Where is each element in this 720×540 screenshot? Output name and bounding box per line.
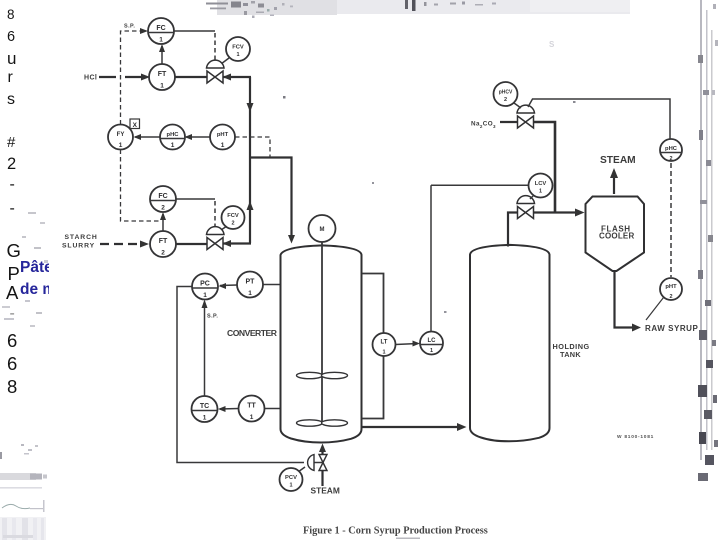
instrument FCV2 bbox=[222, 206, 245, 229]
svg-text:LT: LT bbox=[381, 340, 388, 346]
instrument PC1 bbox=[192, 274, 218, 300]
svg-text:HCl: HCl bbox=[84, 75, 97, 82]
wire pHT2 to pHC2 (dashed) bbox=[670, 163, 672, 277]
wire LC1 output to LCV1 bbox=[430, 185, 432, 331]
valve LCV (body + dome) bbox=[517, 196, 535, 219]
svg-text:pHCV: pHCV bbox=[499, 90, 513, 96]
wire TC1 to PC1 setpoint bbox=[202, 300, 208, 397]
svg-text:X: X bbox=[133, 122, 138, 129]
instrument FC2 bbox=[150, 186, 176, 212]
agitator propeller lower bbox=[297, 420, 348, 426]
process feed to converter bbox=[250, 158, 295, 244]
instrument FC1 bbox=[148, 18, 174, 44]
svg-text:LCV: LCV bbox=[535, 181, 547, 187]
process holding tank to flash cooler bbox=[508, 209, 585, 247]
svg-text:FCV: FCV bbox=[232, 45, 244, 51]
wire PC1 output to steam valve bbox=[177, 287, 304, 463]
agitator propeller upper bbox=[297, 372, 348, 378]
instrument LCV1 bbox=[529, 174, 553, 198]
wire LCV1 circle link bbox=[530, 196, 533, 199]
wire FC1 output to valve FCV1 bbox=[175, 30, 216, 32]
steam inlet arrow into converter bottom bbox=[319, 444, 326, 456]
svg-text:LC: LC bbox=[428, 338, 437, 344]
label STARCH SLURRY bbox=[62, 234, 98, 250]
svg-text:FT: FT bbox=[158, 71, 167, 78]
instrument FT1 bbox=[149, 64, 175, 90]
instrument pHT1 bbox=[210, 125, 235, 150]
instrument FCV1 bbox=[226, 37, 250, 61]
svg-text:1: 1 bbox=[119, 142, 123, 149]
smudge under caption bbox=[396, 538, 420, 540]
bottom left scan marks bbox=[0, 444, 47, 540]
svg-text:S.P.: S.P. bbox=[124, 24, 135, 30]
wire pHC1 to FY bbox=[134, 134, 160, 140]
process starch slurry feed bbox=[100, 240, 251, 248]
wire FC2 output to valve FCV2 bbox=[177, 198, 216, 200]
process steam feed line bbox=[321, 470, 323, 486]
wire PT1 to PC1 bbox=[219, 283, 238, 289]
svg-text:FT: FT bbox=[159, 238, 168, 245]
svg-text:1: 1 bbox=[171, 142, 175, 149]
svg-text:1: 1 bbox=[248, 290, 252, 297]
svg-text:M: M bbox=[320, 227, 325, 233]
process raw syrup outlet bbox=[615, 271, 642, 332]
instrument pHCV2 bbox=[494, 82, 518, 106]
wire FY output down to FC2 loop (dash-dot) bbox=[121, 150, 162, 222]
process steam out of flash cooler bbox=[610, 168, 618, 194]
process starch rise line x250 up bbox=[247, 158, 254, 244]
instrument TT1 bbox=[239, 396, 265, 422]
svg-text:1: 1 bbox=[382, 350, 385, 356]
svg-text:1: 1 bbox=[250, 414, 254, 421]
svg-text:2: 2 bbox=[161, 250, 165, 257]
instrument pHC2 bbox=[660, 139, 682, 162]
agitator shaft bbox=[321, 242, 323, 424]
label FLASH COOLER bbox=[599, 224, 634, 240]
instrument PT1 bbox=[237, 272, 263, 298]
svg-text:TANK: TANK bbox=[560, 350, 581, 359]
svg-text:PT: PT bbox=[246, 279, 256, 286]
svg-text:STARCH: STARCH bbox=[65, 234, 98, 241]
svg-text:2: 2 bbox=[669, 294, 672, 300]
process Na2CO3 feed bbox=[500, 122, 555, 213]
wire pHC2 to pHCV2 valve bbox=[528, 99, 670, 139]
svg-text:S: S bbox=[549, 40, 555, 49]
svg-text:Figure 1 - Corn Syrup Producti: Figure 1 - Corn Syrup Production Process bbox=[303, 526, 488, 537]
svg-text:2: 2 bbox=[504, 97, 507, 103]
svg-text:1: 1 bbox=[236, 52, 239, 58]
svg-text:PC: PC bbox=[200, 281, 210, 288]
holding tank vessel bbox=[470, 245, 550, 441]
scattered scan specks bbox=[283, 4, 718, 313]
svg-text:1: 1 bbox=[203, 415, 207, 422]
converter vessel bbox=[281, 245, 362, 442]
wire FT2 to FC2 measurement bbox=[160, 212, 166, 231]
instrument pHC1 bbox=[160, 125, 185, 150]
svg-text:FC: FC bbox=[156, 25, 165, 32]
valve FCV2 bbox=[207, 227, 225, 250]
instrument LC1 bbox=[420, 332, 443, 355]
svg-text:1: 1 bbox=[221, 142, 225, 149]
right edge scan noise column bbox=[698, 0, 718, 481]
svg-text:1: 1 bbox=[159, 37, 163, 44]
process converter outlet to holding tank bbox=[362, 423, 467, 431]
process main vertical line x250 (HCl down) bbox=[247, 77, 254, 158]
svg-text:STEAM: STEAM bbox=[311, 485, 340, 495]
svg-text:CONVERTER: CONVERTER bbox=[227, 328, 278, 338]
svg-text:1: 1 bbox=[160, 83, 164, 90]
wire TT1 to converter wall bbox=[265, 408, 282, 410]
process HCl feed line bbox=[99, 74, 251, 81]
wire PT1 to converter wall bbox=[263, 284, 281, 286]
svg-text:2: 2 bbox=[161, 205, 165, 212]
svg-text:1: 1 bbox=[430, 348, 433, 354]
left vertical title text characters bbox=[7, 8, 31, 22]
scan smudge cluster top bbox=[206, 0, 496, 18]
svg-text:W 8100-1081: W 8100-1081 bbox=[617, 434, 654, 440]
valve FCV1 (body + actuator dome) bbox=[207, 60, 225, 83]
instrument pHT2 bbox=[660, 278, 682, 300]
instrument FY bbox=[108, 125, 133, 150]
svg-text:2: 2 bbox=[669, 156, 672, 162]
wire FCV1 circle link bbox=[221, 58, 229, 64]
blue french caption, clipped by scan image bbox=[20, 257, 49, 299]
instrument LT1 bbox=[373, 333, 396, 356]
svg-text:PCV: PCV bbox=[285, 475, 297, 481]
wire PCV1 circle link bbox=[298, 467, 305, 472]
svg-text:1: 1 bbox=[203, 292, 207, 299]
wire FY to FC1 setpoint (dash-dot vertical) bbox=[121, 28, 149, 125]
svg-text:1: 1 bbox=[289, 483, 292, 489]
wire pHT1 to pHC1 bbox=[185, 134, 211, 140]
svg-text:pHT: pHT bbox=[665, 284, 677, 290]
flash cooler vessel bbox=[586, 197, 645, 272]
valve PCV1 (vertical body + side dome) bbox=[308, 455, 327, 471]
wire pHT1 probe tap bbox=[235, 137, 270, 157]
svg-text:pHC: pHC bbox=[665, 146, 678, 152]
left margin scan specks bbox=[2, 212, 48, 327]
label HOLDING TANK bbox=[553, 342, 590, 359]
svg-text:RAW SYRUP: RAW SYRUP bbox=[645, 324, 699, 333]
wire FT1 to FC1 measurement bbox=[159, 44, 165, 64]
level loop on converter right bbox=[362, 274, 384, 419]
svg-text:pHC: pHC bbox=[167, 132, 180, 138]
svg-text:STEAM: STEAM bbox=[600, 155, 636, 166]
svg-text:pHT: pHT bbox=[217, 132, 229, 138]
X multiplier box on FY bbox=[130, 119, 140, 129]
wire TT1 to TC1 bbox=[218, 406, 239, 412]
wire FCV2 circle link bbox=[221, 226, 227, 230]
wire LT1 to LC1 bbox=[396, 341, 421, 347]
instrument TC1 bbox=[192, 396, 218, 422]
svg-text:Na2CO3: Na2CO3 bbox=[471, 121, 496, 130]
svg-text:TT: TT bbox=[247, 403, 256, 410]
svg-text:1: 1 bbox=[539, 189, 542, 195]
svg-text:TC: TC bbox=[200, 403, 209, 410]
instrument PCV1 bbox=[280, 468, 303, 491]
instrument FT2 bbox=[150, 231, 176, 257]
motor M on converter bbox=[309, 215, 336, 242]
svg-text:SLURRY: SLURRY bbox=[62, 243, 95, 250]
svg-text:FCV: FCV bbox=[227, 213, 239, 219]
svg-text:FC: FC bbox=[158, 193, 167, 200]
svg-text:FY: FY bbox=[117, 132, 125, 138]
svg-text:COOLER: COOLER bbox=[599, 232, 634, 241]
wire pHCV2 circle link bbox=[514, 103, 521, 108]
scan top gray band bbox=[217, 0, 630, 14]
wire pHT2 probe tap bbox=[646, 298, 664, 321]
svg-text:2: 2 bbox=[231, 221, 234, 227]
svg-text:S.P.: S.P. bbox=[207, 314, 218, 320]
valve pHCV2 (body + dome) bbox=[517, 105, 535, 128]
